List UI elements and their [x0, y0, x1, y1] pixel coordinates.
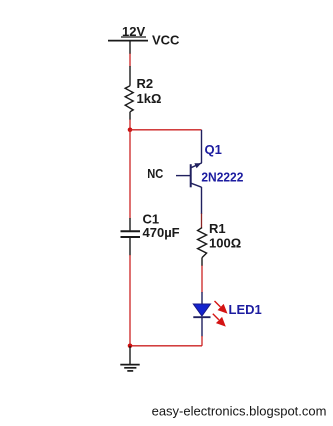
- svg-text:Q1: Q1: [205, 142, 222, 157]
- svg-text:2N2222: 2N2222: [201, 170, 243, 185]
- resistor R1: [198, 228, 207, 266]
- svg-text:470µF: 470µF: [143, 225, 180, 240]
- ground: [120, 346, 139, 371]
- node A junction dot: [128, 128, 133, 133]
- svg-text:12V: 12V: [122, 24, 145, 39]
- svg-text:1kΩ: 1kΩ: [137, 91, 162, 106]
- svg-text:VCC: VCC: [152, 33, 180, 48]
- LED light arrow 2: [213, 314, 225, 326]
- wire: node A down to C1: [129, 130, 131, 219]
- svg-text:LED1: LED1: [229, 302, 262, 317]
- wire: node A to transistor emitter (horizontal): [130, 129, 202, 131]
- LED1: [193, 292, 210, 337]
- LED light arrow 1: [215, 301, 227, 313]
- svg-text:R2: R2: [137, 76, 154, 91]
- svg-text:100Ω: 100Ω: [209, 236, 241, 251]
- svg-text:easy-electronics.blogspot.com: easy-electronics.blogspot.com: [152, 404, 327, 419]
- power symbol VCC 12V: [108, 37, 148, 54]
- node B junction dot: [128, 344, 133, 349]
- wire: R2 to node A: [129, 120, 131, 130]
- resistor R2: [125, 66, 133, 120]
- wire: R1 to LED1: [201, 266, 203, 293]
- wire: Q1 collector to R1: [201, 214, 203, 229]
- svg-text:R1: R1: [209, 221, 226, 236]
- wire: LED1 to bottom rail: [201, 336, 203, 346]
- transistor Q1: [176, 130, 202, 214]
- capacitor C1: [121, 218, 141, 255]
- wire: bottom rail: [130, 345, 202, 347]
- svg-text:NC: NC: [147, 166, 164, 181]
- wire: C1 to ground node: [129, 255, 131, 346]
- wire: power stem to R2: [129, 54, 131, 67]
- emitter arrowhead: [194, 163, 201, 168]
